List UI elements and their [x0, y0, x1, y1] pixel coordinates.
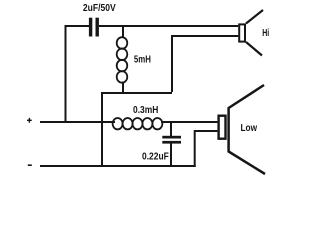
svg-text:2uF/50V: 2uF/50V — [83, 3, 116, 14]
svg-text:Low: Low — [241, 123, 258, 134]
svg-text:0.22uF: 0.22uF — [142, 151, 169, 162]
svg-text:0.3mH: 0.3mH — [133, 104, 158, 116]
svg-text:5mH: 5mH — [134, 55, 151, 66]
svg-text:Hi: Hi — [262, 28, 269, 39]
